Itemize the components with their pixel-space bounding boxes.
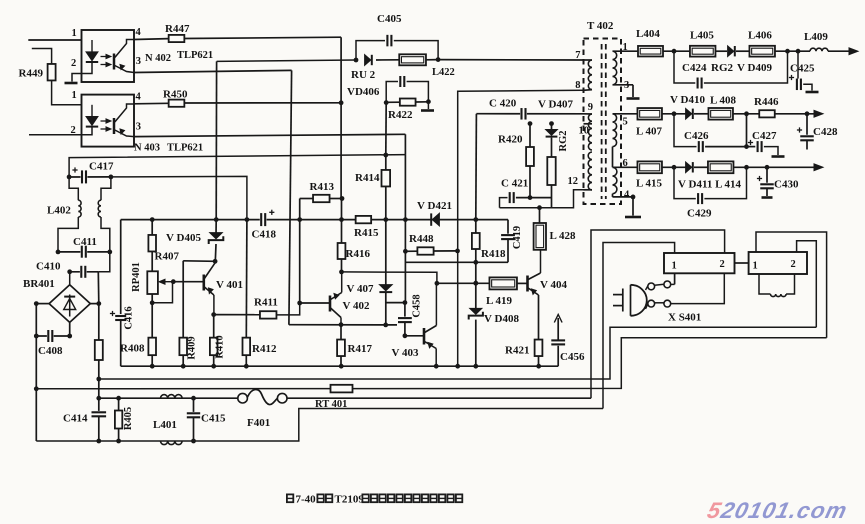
inductor L409 [810,48,828,51]
svg-text:C405: C405 [377,13,402,25]
svg-text:4: 4 [136,27,142,38]
svg-text:C429: C429 [687,208,712,220]
wire RU2 line from x216 corner [217,60,356,61]
wire long line y379 with jog to y327 [99,327,817,379]
inductor L422 [376,59,399,61]
svg-text:2: 2 [720,259,725,270]
svg-text:C416: C416 [124,306,135,329]
wire AC live to x591 [287,397,591,399]
wire L419 input line y283 [437,282,490,284]
capacitor C425 [797,51,799,84]
svg-text:C415: C415 [201,413,226,425]
resistor R449 [32,49,52,65]
transistor V403 [405,335,424,337]
connector right box [749,252,807,274]
N403 internal LED [91,105,93,117]
svg-text:L406: L406 [748,30,772,42]
svg-text:10: 10 [579,126,590,137]
thermistor RT401 on y388 line [331,385,353,393]
wire x341 bus upper (R447 output down) [340,37,342,198]
wire N403 pin3 long line to x405 [134,134,405,136]
wire bridge bottom to C408 line [69,322,71,336]
N403 internal phototransistor [113,118,116,134]
wire R449 to N403 pin1 [52,81,82,105]
svg-text:RP401: RP401 [131,262,142,292]
wire T402 pin12 return line [500,190,584,208]
inductor L401 top winding [161,395,183,399]
N402 internal phototransistor [113,54,116,70]
resistor R407 [150,217,155,222]
node V402 top [339,270,344,275]
svg-text:C424: C424 [682,62,707,74]
svg-text:R405: R405 [123,407,134,430]
arrow output row3 [814,164,823,171]
svg-text:R410: R410 [215,335,226,358]
capacitor C427 [747,146,756,148]
svg-text:L 415: L 415 [636,178,662,190]
wire row2 [662,113,686,115]
figure caption [286,494,294,504]
svg-text:C430: C430 [774,179,799,191]
capacitor C424 bypass [674,51,695,83]
transistor V404 [526,276,529,292]
svg-text:C 420: C 420 [489,98,517,110]
svg-text:R414: R414 [355,172,380,184]
svg-text:BR401: BR401 [23,278,55,290]
svg-text:R409: R409 [187,336,198,359]
node y379 start [96,377,101,382]
watermark 520101.com [705,497,851,523]
svg-text:V 404: V 404 [540,279,567,291]
svg-text:C417: C417 [89,161,114,173]
node V402 bottom [339,322,344,327]
svg-text:R449: R449 [19,68,44,80]
ground T402 pin3 [632,85,634,97]
wire long line y388 with jog to y337 [36,338,826,389]
switch contacts bottom [648,300,655,307]
svg-text:1: 1 [753,261,758,272]
svg-text:L405: L405 [690,30,714,42]
inductor L402 left winding [69,177,78,200]
svg-text:C458: C458 [412,294,423,317]
plug P401 [613,294,623,296]
capacitor C407 parallel to R422 [386,82,398,103]
capacitor C405 bypass loop [356,41,385,60]
svg-text:V D407: V D407 [538,99,573,111]
T402 secondary winding 6-4 [613,166,638,168]
wire row2 out [775,113,815,115]
svg-text:L 408: L 408 [710,95,736,107]
resistor R416 [341,199,343,244]
capacitor C420 line to T402 pin9 [476,113,583,115]
svg-text:R420: R420 [498,134,523,146]
wire L422 output to T402 pin7 [438,59,583,61]
wire x300 vertical (R413 to base) [299,199,301,304]
wire row3 [662,166,686,168]
svg-text:L404: L404 [636,28,660,40]
svg-text:C418: C418 [252,229,277,241]
svg-text:9: 9 [588,102,593,113]
capacitor C411 [58,251,110,253]
T402 secondary winding 5-6 [613,113,638,115]
svg-text:R413: R413 [310,181,335,193]
wire C411 right down to C410 node [98,252,110,272]
T402 primary winding 9-10-12 [584,113,593,115]
potentiometer RP401 [147,271,158,294]
resistor R409 [182,261,184,338]
svg-text:N 403: N 403 [134,143,160,154]
svg-text:R422: R422 [388,109,413,121]
svg-text:5: 5 [623,117,628,128]
capacitor C428 [806,114,808,135]
svg-text:R447: R447 [165,23,190,35]
svg-text:2: 2 [71,125,76,136]
wire R409 top tie line [183,260,215,263]
wire R447 output to x341 bus [184,37,341,38]
svg-text:TLP621: TLP621 [167,143,203,154]
node V401 top [213,259,218,264]
wire hot-ground rail y366 [121,365,559,367]
wire C416 lower to rail corner [120,320,122,366]
optocoupler N402 TLP621 [82,30,135,82]
wire x216 vertical bus [215,61,217,219]
wire N403 pin4 to R450 [134,102,169,105]
wire AC live line y398 [99,397,238,399]
svg-text:R411: R411 [254,297,278,309]
wire bridge right corner [90,303,99,305]
resistor R415 on y220 line [356,216,372,223]
N402 internal LED [91,40,93,52]
wire N402 pin1 stub [28,39,81,41]
svg-text:R415: R415 [354,227,379,239]
wire V402 emitter line y325 [289,324,397,326]
N402 coupling arrows [101,56,109,58]
svg-text:V 402: V 402 [343,300,370,312]
fuse F401 [238,393,248,403]
svg-text:L 428: L 428 [550,230,576,242]
diode + resistor RG2 [549,121,554,126]
wire R411 to V402 base corner [277,303,300,315]
wire x476 upper (C420 corner) [475,114,478,220]
node RU2 anode junction [354,58,359,63]
capacitor C429 bypass [674,167,696,198]
wire N402 pin3 vertical x291 [289,70,292,324]
wire [694,113,709,115]
wire pin1 bottom to switch [674,273,676,284]
capacitor C421 line [500,198,508,208]
svg-text:V 407: V 407 [347,283,374,295]
resistor R408 [151,303,153,338]
svg-text:C411: C411 [73,236,97,248]
svg-text:R446: R446 [754,96,779,108]
svg-text:RU 2: RU 2 [351,69,376,81]
wire R422 left leg down to y155 line [385,103,387,155]
svg-text:4: 4 [136,92,142,103]
node AC live start [96,396,101,401]
degaussing coil [759,274,771,294]
wire AC neutral loop to connector pin1 [603,243,675,409]
inductor L402 right winding [101,177,111,200]
svg-text:R407: R407 [155,251,180,263]
wire long line y156 (C417 top to 4-way) [69,155,406,177]
svg-text:3: 3 [136,56,141,67]
wire V402 base line [300,302,330,304]
svg-text:R418: R418 [481,248,506,260]
capacitor C414 [92,411,107,418]
svg-text:RG2: RG2 [558,131,569,152]
arrow output row2 [814,110,823,117]
svg-text:1: 1 [72,28,77,39]
wire x36 vertical (bridge left to bottom line) [35,304,37,441]
wire plug to contacts [646,286,649,291]
svg-text:L409: L409 [804,31,828,43]
inductor L405 [690,46,716,57]
wire switch bottom to pin2 [671,273,725,303]
resistor R448 [403,249,408,254]
capacitor C417 [69,176,111,178]
capacitor C456 [557,345,559,367]
resistor R420 [528,121,533,126]
svg-text:C426: C426 [684,130,709,142]
svg-text:1: 1 [623,42,628,53]
resistor R450 [169,100,185,107]
wire R411 line [214,314,260,316]
connector XS401 left box [664,253,735,273]
T402 core dashed lines [601,44,603,199]
svg-text:L 419: L 419 [486,295,512,307]
inductor L428 [537,205,542,210]
svg-text:1: 1 [72,90,77,101]
diode V407 [385,220,387,289]
capacitor C458 [404,303,406,317]
wire C410 right leg to bridge right node [97,272,100,304]
svg-text:V D411 L 414: V D411 L 414 [678,179,742,191]
node x341/y220 [339,217,344,222]
resistor R403 (unlabeled) on x99 line [98,304,100,340]
svg-text:L422: L422 [432,67,455,78]
wire bridge left corner [36,303,49,305]
ground N402 pin2 [65,82,78,85]
wire [694,166,708,168]
svg-text:RG2: RG2 [711,62,734,74]
resistor R411 [260,311,277,318]
wire [716,50,728,52]
resistor R418 [473,217,478,222]
resistor R405 [116,396,121,401]
svg-text:X S401: X S401 [668,312,701,324]
svg-text:C425: C425 [790,63,815,75]
svg-text:V 403: V 403 [392,347,419,359]
resistor R413 [300,198,313,200]
svg-text:R448: R448 [409,233,434,245]
svg-text:7-40: 7-40 [296,494,317,506]
wire connector link [735,262,749,264]
bridge rectifier BR401 [69,272,71,285]
svg-text:R421: R421 [505,345,529,357]
T402 secondary winding 1-3 [613,50,639,52]
wire AC live loop to connector pin2 [591,230,725,398]
svg-text:R416: R416 [346,248,371,260]
N403 coupling arrows [101,120,109,122]
svg-text:520101.com: 520101.com [705,497,851,523]
svg-text:L401: L401 [153,419,177,431]
ground at R422 [427,102,429,109]
wire R450 output joins x341 bus [184,102,341,104]
resistor R412 [245,220,248,338]
svg-text:V D410: V D410 [670,94,705,106]
optocoupler N403 TLP621 [82,95,135,147]
wire N402 pin4 to R447 [134,38,169,41]
svg-text:TLP621: TLP621 [177,50,213,61]
svg-text:C414: C414 [63,413,88,425]
svg-text:R408: R408 [120,343,145,355]
svg-text:V D408: V D408 [484,313,519,325]
svg-text:F401: F401 [247,417,270,429]
svg-text:2: 2 [71,58,76,69]
wire right loops to long lines [756,232,827,338]
svg-text:T2109: T2109 [335,494,365,506]
wire C417 right to C418 corner [111,176,247,219]
wire y220 line [121,219,508,221]
svg-text:C419: C419 [512,226,523,249]
inductor L415 [637,161,662,173]
svg-text:T 402: T 402 [587,20,614,32]
svg-text:L402: L402 [47,205,71,217]
inductor L414 [708,161,734,173]
diode VD410 [686,109,692,119]
svg-text:C 421: C 421 [501,178,528,190]
svg-text:C456: C456 [560,351,585,363]
capacitor C410 [70,271,99,273]
svg-text:C428: C428 [813,126,838,138]
svg-text:V D409: V D409 [737,62,772,74]
svg-text:3: 3 [624,80,629,91]
svg-text:L 407: L 407 [636,126,662,138]
svg-text:C410: C410 [36,261,61,273]
resistor R422 [384,100,389,105]
svg-text:V 401: V 401 [216,279,243,291]
wire x457 vertical (pin8 line down to rail) [458,90,584,366]
capacitor C418 on y220 line [260,213,267,226]
svg-text:C408: C408 [38,345,63,357]
node R450/bus junction [339,100,344,105]
ground T402 pin4 [632,197,634,216]
RP401 wiper arrow [160,281,173,283]
transformer T402 dashed box [584,39,622,205]
wire N403 pin2 stub [29,127,92,135]
inductor L408 [708,108,733,120]
capacitor C430 [766,167,768,183]
svg-text:R412: R412 [252,343,277,355]
transistor V401 [203,275,206,291]
diode VD411 [686,162,692,172]
resistor R421 [538,295,540,340]
inductor L404 [638,46,663,57]
svg-text:2: 2 [791,259,796,270]
T402 primary winding 7-8 [584,59,593,61]
inductor L406 [749,46,775,57]
zener VD408 [473,281,478,286]
capacitor C416 [115,315,126,322]
capacitor C415 [191,396,196,401]
inductor L407 [637,108,662,120]
capacitor C419 [507,220,509,235]
diode VD406 RU 2 [365,55,371,65]
wire row1 [663,50,690,52]
svg-text:V D421: V D421 [417,200,452,212]
wire y272 line [342,272,437,283]
wire y262 line (R418/C419 bottoms) [405,261,508,263]
resistor R410 [211,312,216,317]
transistor V402 [329,296,332,312]
wire V407 cathode to C458 top [386,302,405,304]
capacitor C408 [36,335,69,337]
diode VD421 on y220 line [433,214,440,226]
svg-text:12: 12 [568,176,579,187]
arrow output row1 [849,48,858,55]
wire AC neutral bottom line [36,409,603,442]
svg-text:6: 6 [623,158,628,169]
wire row1 out [775,50,810,52]
wire N402 pin3 long line [134,70,292,72]
diode VD409 [728,46,734,56]
wire [736,50,750,52]
svg-text:7: 7 [575,50,580,61]
svg-text:V D405: V D405 [166,232,201,244]
node L422 output [436,57,441,62]
svg-text:4: 4 [624,190,630,201]
svg-text:R417: R417 [348,343,373,355]
resistor R446 [759,110,775,117]
svg-text:3: 3 [136,122,141,133]
svg-text:R450: R450 [163,89,188,101]
resistor R417 [340,325,342,340]
wire RP401 wiper to V401 base [173,281,203,283]
zener VD405 on x216 bus [214,217,219,222]
inductor L401 bottom winding [161,441,183,445]
switch contacts top [648,283,655,290]
svg-text:N 402: N 402 [145,53,171,64]
resistor R447 [169,35,185,42]
resistor R414 [383,153,388,158]
svg-text:8: 8 [575,80,580,91]
svg-text:C427: C427 [752,130,777,142]
wire C416 vertical upper [120,220,122,314]
svg-text:VD406: VD406 [347,86,380,98]
capacitor C426 bypass [674,114,697,147]
wire x405 vertical bus [404,155,406,303]
wire row3 out [734,166,815,168]
svg-text:1: 1 [672,261,677,272]
inductor L419 [489,277,517,289]
wire [733,113,760,115]
